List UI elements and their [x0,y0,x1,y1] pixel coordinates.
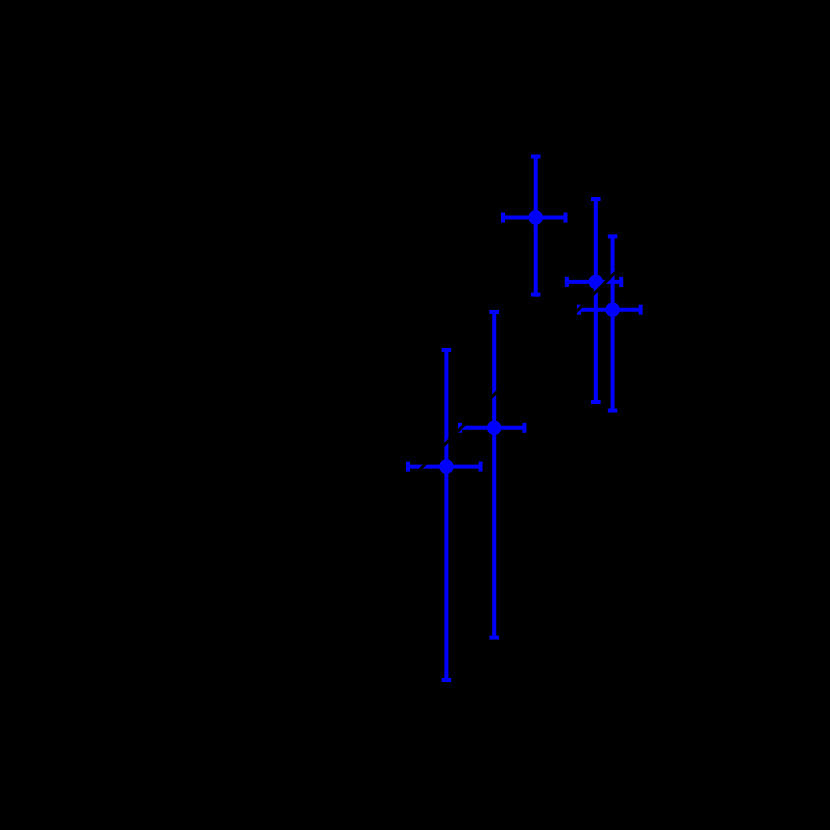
data point P4 y-error bar [489,312,499,638]
data point P1 x-error bar [503,213,566,223]
data point P2 x-error bar [567,277,621,287]
data point P1 y-error bar [531,157,541,295]
data point P5 x-error bar [408,462,481,472]
data point P3 y-error bar [608,236,618,410]
data point P4 marker [487,421,501,435]
data point P1 marker [529,210,543,224]
data point P2 marker [589,275,603,289]
data point P3 marker [605,303,619,317]
data point P2 y-error bar [591,199,601,402]
data point P4 x-error bar [460,423,524,433]
data point P5 y-error bar [442,350,452,680]
data point P5 marker [439,459,453,473]
data point P3 x-error bar [579,305,641,315]
